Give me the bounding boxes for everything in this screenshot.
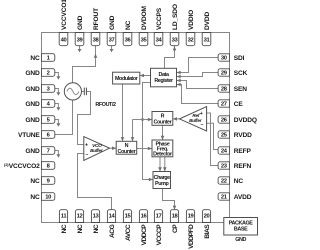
pin 9 box [42, 177, 55, 185]
wire bus branch to N counter top [132, 120, 134, 142]
wire bus branch to R counter [133, 119, 153, 121]
svg-text:17: 17 [156, 214, 162, 220]
wire R counter to PFD [162, 125, 164, 140]
svg-text:GND: GND [25, 70, 40, 77]
pin 39 box [75, 33, 84, 46]
wire VTUNE pin6 to VCO bottom [55, 100, 73, 134]
ground pin 7 [55, 151, 58, 155]
svg-text:Counter: Counter [117, 149, 136, 155]
pin 35 box [139, 33, 148, 46]
pin 34 box [154, 33, 163, 46]
pin 32 box [186, 33, 195, 46]
svg-text:VCCVCO1(1): VCCVCO1(1) [60, 0, 68, 30]
svg-text:+: + [200, 111, 203, 117]
svg-text:AVCC: AVCC [125, 224, 132, 241]
wire PFD up signal to charge pump [159, 157, 161, 172]
pin 11 box [59, 210, 67, 223]
block modulator [113, 72, 140, 84]
svg-text:27: 27 [221, 102, 227, 108]
svg-text:GND: GND [25, 148, 40, 155]
svg-text:GND: GND [25, 86, 40, 93]
pin 6 box [42, 131, 55, 139]
VCO oscillator [64, 83, 81, 100]
ground pin 3 [55, 89, 58, 93]
svg-text:CE: CE [234, 101, 244, 108]
svg-text:DVDD: DVDD [204, 12, 211, 30]
ground pin 2 [55, 73, 58, 77]
wire N counter to phase freq detector [137, 148, 152, 150]
ground pin 4 [55, 104, 58, 108]
svg-text:GND: GND [25, 101, 40, 108]
svg-text:BASE: BASE [234, 227, 248, 233]
wire VCO buffer - input to pin14 ACG [78, 154, 112, 210]
svg-text:40: 40 [61, 38, 67, 44]
block charge pump [153, 172, 171, 189]
pin 19 box [186, 210, 194, 223]
wire data register to modulator [140, 75, 151, 77]
svg-text:NC: NC [77, 224, 84, 233]
svg-text:(2)VCCVCO2: (2)VCCVCO2 [4, 162, 40, 170]
block phase freq detector [152, 140, 173, 157]
wire pin28 SEN to data register [177, 81, 219, 89]
svg-text:+: + [85, 143, 88, 149]
pin 8 box [42, 162, 55, 170]
svg-text:Modulator: Modulator [115, 76, 139, 82]
capacitor coupling RFOUT/2 [83, 88, 85, 96]
pin 10 box [42, 193, 55, 201]
svg-text:GND: GND [109, 15, 116, 30]
pin 18 box [170, 210, 178, 223]
pin 40 box [59, 33, 68, 46]
svg-text:RFOUT: RFOUT [93, 8, 100, 30]
op-amp Ref buffer [180, 107, 207, 131]
wire RFOUT/2 path cap to VCO buffer + input [78, 92, 91, 145]
svg-text:AVDD: AVDD [234, 194, 252, 201]
junction dot on bus [141, 118, 144, 121]
pin 22 box [218, 177, 229, 184]
wire PFD down signal to charge pump [164, 157, 166, 172]
svg-text:VCCPS: VCCPS [156, 7, 163, 30]
pin 16 box [139, 210, 147, 223]
svg-text:NC: NC [30, 55, 40, 62]
svg-text:SCK: SCK [234, 70, 248, 77]
svg-text:VTUNE: VTUNE [18, 132, 40, 139]
svg-text:NC: NC [30, 194, 40, 201]
svg-text:LD_SDO: LD_SDO [172, 4, 179, 30]
svg-text:Buffer: Buffer [90, 148, 104, 153]
svg-text:7: 7 [47, 149, 50, 155]
svg-text:−: − [85, 152, 88, 158]
pin 1 box [42, 54, 55, 62]
svg-text:DVDDQ: DVDDQ [234, 117, 257, 124]
pin 31 box [202, 33, 211, 46]
svg-text:22: 22 [221, 179, 227, 185]
svg-text:VDDIO: VDDIO [188, 10, 195, 30]
svg-text:CP: CP [172, 224, 179, 233]
wire pin24 REFP to ref buffer - input [207, 123, 219, 149]
wire arrow up into pin 38 [94, 54, 98, 58]
pin 21 box [218, 193, 229, 200]
svg-text:NC: NC [93, 224, 100, 233]
svg-text:GND: GND [77, 15, 84, 30]
svg-text:NC: NC [30, 178, 40, 185]
svg-text:12: 12 [77, 214, 83, 220]
ground pin 5 [55, 120, 58, 124]
pin 4 box [42, 100, 55, 108]
svg-text:NC: NC [125, 20, 132, 30]
wire ref buffer output to R counter [173, 118, 180, 120]
svg-text:SDI: SDI [234, 55, 245, 62]
ground pin 39 [79, 46, 81, 50]
svg-text:Detector: Detector [153, 151, 173, 157]
IC package outline [42, 33, 230, 223]
svg-text:ACG: ACG [109, 224, 116, 238]
pin 24 box [218, 147, 229, 154]
wire charge pump to pin18 CP [163, 189, 175, 210]
wire data register to pin33 LD_SDO [165, 46, 175, 69]
svg-text:RVDD: RVDD [234, 132, 252, 139]
svg-text:REFN: REFN [234, 163, 252, 170]
svg-text:VDDCP: VDDCP [141, 224, 148, 246]
pin 27 box [218, 100, 229, 107]
pin 26 box [218, 116, 229, 123]
pin 36 box [123, 33, 132, 46]
pin 13 box [91, 210, 99, 223]
pin 20 box [202, 210, 210, 223]
pin 38 box [91, 33, 100, 46]
wire pin23 REFN to ref buffer + input [207, 113, 219, 166]
pin 37 box [107, 33, 116, 46]
svg-text:30: 30 [221, 56, 227, 62]
wire pin27 CE to data register [177, 85, 219, 104]
pin 15 box [123, 210, 131, 223]
pin 12 box [75, 210, 83, 223]
pin 17 box [154, 210, 162, 223]
svg-text:10: 10 [45, 195, 51, 201]
svg-text:GND: GND [235, 237, 246, 243]
svg-text:RFOUT/2: RFOUT/2 [95, 102, 116, 108]
pin 14 box [107, 210, 115, 223]
svg-text:Register: Register [154, 78, 174, 84]
svg-text:Counter: Counter [153, 120, 172, 126]
svg-text:REFP: REFP [234, 148, 252, 155]
svg-text:NC: NC [234, 178, 244, 185]
pin 33 box [170, 33, 179, 46]
wire data register bus down to charge pump [143, 83, 154, 180]
svg-text:BIAS: BIAS [204, 224, 211, 239]
pin 30 box [218, 54, 229, 61]
block data register [151, 68, 177, 87]
wire VCO buffer output to N counter [110, 147, 117, 149]
block N counter [116, 141, 137, 154]
svg-text:VCCCP: VCCCP [156, 224, 163, 246]
svg-text:20: 20 [204, 214, 210, 220]
pin 23 box [218, 162, 229, 169]
svg-text:2: 2 [47, 71, 50, 77]
svg-text:DVDOM: DVDOM [141, 6, 148, 30]
wire pin29 SCK to data register [177, 73, 219, 77]
block R counter [152, 112, 173, 126]
svg-text:Pump: Pump [155, 181, 169, 187]
svg-text:GND: GND [25, 117, 40, 124]
svg-text:VDDPFD: VDDPFD [188, 224, 195, 249]
svg-text:32: 32 [188, 38, 194, 44]
svg-text:NC: NC [61, 224, 68, 233]
svg-text:37: 37 [109, 38, 115, 44]
wire RFOUT pin38 to VCO top [73, 46, 96, 84]
wire modulator to N counter [122, 84, 124, 141]
pin 29 box [218, 69, 229, 76]
wire pin30 SDI to data register [177, 58, 219, 73]
ground pin 37 [111, 46, 113, 50]
op-amp VCO buffer [84, 137, 110, 161]
pin 7 box [42, 147, 55, 155]
svg-text:Buffer: Buffer [189, 118, 203, 123]
pin 3 box [42, 85, 55, 93]
svg-text:SEN: SEN [234, 86, 247, 93]
pin 25 box [218, 131, 229, 138]
pin 2 box [42, 69, 55, 77]
wire VCO out to coupling cap [82, 91, 85, 93]
pin 5 box [42, 116, 55, 124]
pin 28 box [218, 85, 229, 92]
package base pad [224, 218, 258, 236]
